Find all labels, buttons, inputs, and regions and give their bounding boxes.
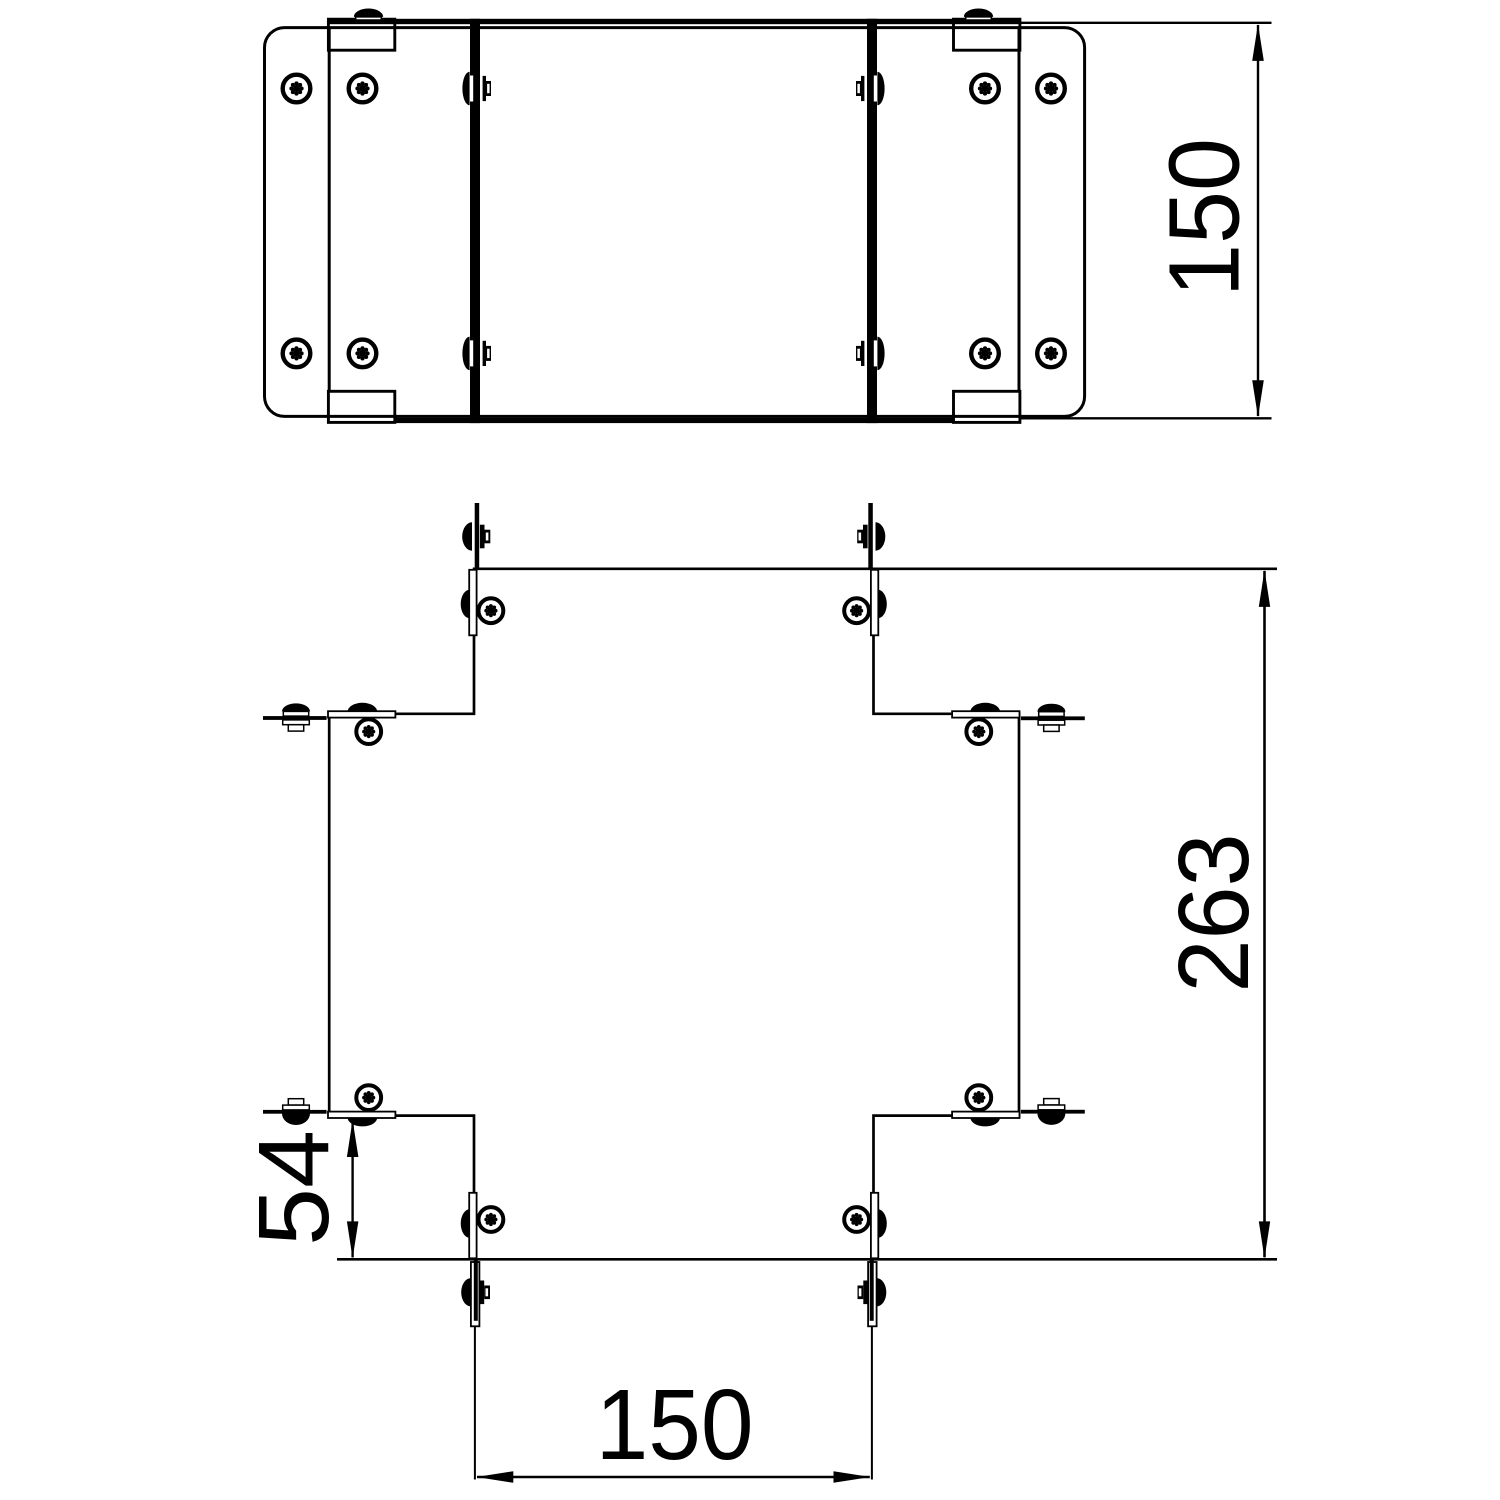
torx screw T5 (side view) [283, 340, 311, 368]
svg-text:150: 150 [1149, 138, 1261, 297]
plate right branch bottom [952, 1112, 1019, 1118]
torx screw T1 (side view) [283, 75, 311, 103]
cross bottom edge + extensions [337, 1258, 1277, 1261]
plate screw head top-right (edge view) [878, 590, 887, 618]
tab bracket bottom-right [954, 391, 1020, 422]
bottom-right stub plate [868, 1262, 877, 1326]
plate bottom branch right [871, 1193, 878, 1259]
right cross rail (section) [867, 19, 877, 423]
cross top edge + dim263 top extension [473, 567, 1277, 570]
stub screw bottom-right branch [858, 1278, 887, 1306]
plate bottom branch left [469, 1193, 476, 1259]
tab screw head top x=368.5 [354, 8, 383, 20]
stub screw left-top branch [282, 703, 310, 731]
dim150 arrow up [1252, 24, 1264, 61]
tab bracket bottom-left [328, 391, 394, 422]
bottom rail bar (side view) [328, 418, 1020, 423]
left connector plate edge (side view) [328, 28, 331, 417]
rail screw bottom-right (side) [856, 337, 885, 371]
cross outline left half [329, 569, 474, 1260]
torx screw P3 bottom-left plate [479, 1207, 504, 1232]
right-bottom stub rail [1021, 1110, 1085, 1114]
right-top stub rail [1021, 716, 1085, 720]
plate screw head left-top (dome) [348, 703, 378, 712]
rail screw top-left (side) [462, 72, 491, 106]
rail screw top-right (side) [856, 72, 885, 106]
stub screw left-bottom branch [282, 1099, 310, 1125]
plate top branch left [469, 570, 476, 636]
stub screw top-left branch [462, 522, 490, 550]
plate right branch top [952, 711, 1019, 717]
dim263 arrow up [1259, 570, 1270, 607]
tab bracket top-left [328, 19, 394, 50]
dim150 dimension line [1257, 25, 1259, 416]
torx screw T7 (side view) [971, 340, 999, 368]
plate top branch right [871, 570, 878, 636]
stub screw right-top branch [1037, 704, 1065, 732]
dim263 dimension line [1263, 571, 1266, 1257]
dim150b left extension line [474, 1326, 476, 1479]
dim54 arrow down [347, 1221, 359, 1258]
torx screw P2 top-right plate [844, 598, 869, 623]
bottom-left stub plate [471, 1262, 480, 1326]
torx screw T8 (side view) [1037, 340, 1065, 368]
stub screw bottom-left branch [461, 1278, 490, 1306]
torx screw P8 right-bottom plate [966, 1085, 991, 1110]
dim150b right extension line [871, 1326, 873, 1479]
plate screw head right-top (dome) [970, 703, 1000, 712]
dim150 arrow down [1252, 380, 1264, 417]
torx screw P6 right-top plate [966, 719, 991, 744]
dim150b dimension line [477, 1476, 870, 1478]
cross outline right half [874, 569, 1020, 1260]
torx screw P4 bottom-right plate [844, 1207, 869, 1232]
side-view body outline [265, 28, 1085, 417]
left-top stub rail [263, 716, 327, 720]
torx screw P5 left-top plate [356, 719, 381, 744]
tab screw head top x=978.5 [964, 8, 993, 20]
plate screw head bottom-left (edge view) [461, 1209, 470, 1237]
svg-text:54: 54 [238, 1130, 350, 1246]
bottom-left stub rail [474, 1259, 478, 1321]
torx screw P1 top-left plate [479, 598, 504, 623]
torx screw T3 (side view) [971, 75, 999, 103]
plate screw head left-bottom (dome) [348, 1118, 378, 1127]
dim263 arrow down [1259, 1221, 1270, 1258]
plate screw head bottom-right (edge view) [878, 1209, 887, 1237]
dim150b arrow left [476, 1471, 513, 1483]
top-left stub rail [475, 503, 480, 569]
plate left branch top [328, 711, 395, 717]
svg-text:150: 150 [596, 1369, 754, 1481]
plate screw head right-bottom (dome) [970, 1118, 1000, 1127]
torx screw P7 left-bottom plate [356, 1085, 381, 1110]
tab bracket top-right [954, 19, 1020, 50]
rail screw bottom-left (side) [462, 337, 491, 371]
dim54 dimension line [351, 1121, 353, 1257]
dim54 arrow up [347, 1120, 359, 1157]
plate left branch bottom [328, 1112, 395, 1118]
right connector plate edge (side view) [1018, 28, 1021, 417]
left cross rail (section) [470, 19, 480, 423]
dim150 top extension line [1021, 22, 1272, 24]
torx screw T6 (side view) [349, 340, 377, 368]
bottom-right stub rail [870, 1259, 874, 1321]
torx screw T4 (side view) [1037, 75, 1065, 103]
top rail bar (side view) [328, 19, 1020, 24]
svg-text:263: 263 [1158, 834, 1270, 993]
dim150 bottom extension line [1021, 417, 1272, 419]
plate screw head top-left (edge view) [461, 590, 470, 618]
stub screw top-right branch [857, 522, 885, 550]
dim150b arrow right [834, 1471, 871, 1483]
stub screw right-bottom branch [1037, 1099, 1065, 1125]
top-right stub rail [868, 503, 873, 569]
torx screw T2 (side view) [349, 75, 377, 103]
left-bottom stub rail [263, 1110, 327, 1114]
